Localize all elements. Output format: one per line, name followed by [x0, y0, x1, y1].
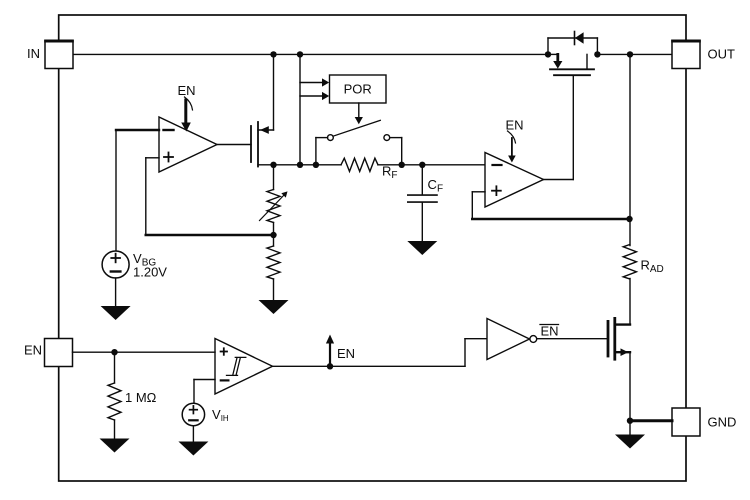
wire U1 output to Q1 gate	[217, 144, 251, 146]
transistor Q2 PMOS pass element	[548, 38, 597, 75]
svg-text:IH: IH	[221, 414, 229, 423]
node dot feedback	[626, 216, 632, 222]
EN label and arrow into U1	[178, 83, 196, 132]
capacitor CF	[408, 165, 437, 242]
svg-text:R: R	[382, 164, 391, 179]
node dot mid-switch-left	[313, 162, 319, 168]
node dot rail-pass-left	[545, 51, 551, 57]
pad GND	[672, 408, 700, 436]
svg-text:EN: EN	[506, 118, 524, 133]
svg-text:F: F	[437, 183, 443, 194]
wire comparator output to inverter	[273, 339, 488, 367]
EN label and arrow into U2	[506, 118, 524, 163]
RF label	[382, 164, 398, 181]
node dot mid-switch-right	[399, 162, 405, 168]
svg-text:1 MΩ: 1 MΩ	[125, 390, 157, 405]
node dot rail-OUT-feedback	[627, 51, 633, 57]
node dot EN-1M	[111, 349, 117, 355]
wire comparator minus input to VIH	[194, 380, 215, 404]
wire Q3 source down to ground node	[629, 352, 631, 434]
variable resistor R1 (trimmed divider top)	[260, 190, 288, 223]
resistor RF	[341, 158, 378, 171]
RAD label	[641, 258, 664, 275]
wire POR input arrow 2	[300, 92, 329, 100]
pad EN	[45, 339, 73, 367]
ground below VIH	[178, 442, 208, 456]
wire R2 to ground	[273, 279, 275, 301]
wire U1 minus input to VBG	[116, 130, 159, 251]
wire U2 plus input feedback from OUT	[472, 192, 629, 219]
node dot divider mid	[270, 232, 276, 238]
inverter U4	[487, 319, 537, 360]
wire RAD to Q3 drain	[629, 279, 631, 325]
svg-text:EN: EN	[541, 324, 559, 339]
voltage source V1 VBG	[102, 251, 129, 278]
wire ground node to GND pad	[630, 419, 672, 422]
svg-text:IN: IN	[27, 46, 40, 61]
ground below R3	[100, 439, 130, 453]
wire mid node to RF left	[274, 164, 342, 166]
node dot EN net	[327, 363, 333, 369]
wire Q1 source to IN rail	[273, 54, 275, 130]
svg-text:C: C	[428, 177, 437, 192]
wire RF right to buffer minus input	[378, 164, 485, 166]
ENbar overline	[540, 324, 559, 326]
node dot rail-POR	[297, 51, 303, 57]
node dot rail-pass-right	[594, 51, 600, 57]
svg-text:EN: EN	[337, 346, 355, 361]
svg-text:GND: GND	[708, 415, 737, 430]
IC boundary border	[59, 15, 686, 481]
comparator U3 with hysteresis	[215, 339, 273, 395]
resistor R2 (divider bottom)	[267, 246, 280, 279]
ground at GND node	[615, 435, 645, 449]
svg-text:EN: EN	[178, 83, 196, 98]
wire divider mid node	[273, 223, 275, 247]
svg-text:EN: EN	[24, 343, 42, 358]
wire U1 plus input feedback from divider	[146, 158, 274, 235]
svg-text:V: V	[212, 407, 221, 422]
svg-text:POR: POR	[344, 82, 372, 97]
op-amp U1 error amplifier	[159, 117, 217, 172]
node dot mid-POR	[297, 162, 303, 168]
ENbar label	[541, 324, 559, 339]
op-amp U2 buffer/driver	[485, 153, 544, 208]
wire inverter output to Q3 gate	[537, 338, 608, 340]
svg-text:F: F	[391, 170, 397, 181]
node dot rail-Q1	[270, 51, 276, 57]
node dot ground node	[627, 418, 633, 424]
ground below VBG	[101, 306, 131, 320]
wire VIH to ground	[192, 426, 194, 442]
EN net arrow and label	[326, 335, 355, 367]
wire OUT node vertical down to feedback node and RAD	[629, 54, 631, 245]
transistor Q3 NMOS discharge	[608, 318, 630, 359]
pad IN	[44, 41, 74, 69]
ground below divider	[259, 300, 289, 314]
pad OUT	[671, 41, 701, 69]
wire POR sense vertical	[299, 54, 301, 164]
svg-text:AD: AD	[650, 264, 664, 275]
node dot mid-CF	[419, 162, 425, 168]
V1 value label VBG 1.20V	[133, 251, 167, 280]
wire EN pad to comparator plus input	[73, 351, 216, 353]
svg-text:OUT: OUT	[708, 47, 736, 62]
ground below CF	[407, 241, 437, 255]
wire VBG to ground	[115, 278, 117, 307]
node dot mid-Q1	[270, 162, 276, 168]
switch S1	[316, 120, 402, 165]
resistor RAD	[623, 245, 636, 280]
svg-text:1.20V: 1.20V	[133, 265, 167, 280]
POR output arrow to switch	[355, 103, 363, 124]
body diode D1 of Q2	[575, 32, 584, 45]
wire Q1 drain down to divider	[273, 165, 275, 190]
wire U2 output to Q2 gate	[544, 76, 574, 180]
transistor Q1 PMOS gain stage	[251, 122, 274, 167]
V2 label VIH	[212, 407, 229, 423]
block POR	[330, 75, 387, 103]
svg-text:R: R	[641, 258, 650, 273]
CF label	[428, 177, 444, 194]
resistor R3 1 Mohm	[108, 352, 121, 438]
voltage source V2 VIH	[182, 403, 204, 425]
wire POR input arrow 1	[300, 78, 329, 86]
wire IN rail left (IN pad to pass FET source node)	[59, 53, 548, 55]
wire IN rail right (pass FET drain node to OUT pad)	[597, 53, 686, 55]
